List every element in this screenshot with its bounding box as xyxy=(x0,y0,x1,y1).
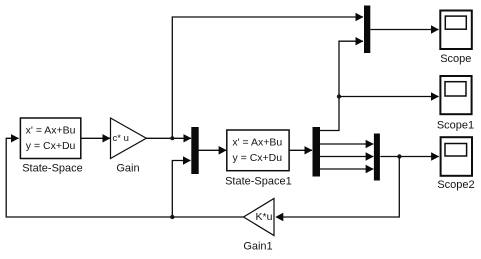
gain block Gain1 xyxy=(244,199,275,236)
svg-text:y = Cx+Du: y = Cx+Du xyxy=(232,152,282,164)
state-space block State-Space xyxy=(20,118,80,159)
node junction on feedback line xyxy=(170,215,174,219)
demux block Demux xyxy=(313,127,321,177)
wire Gain output to Mux input 1 xyxy=(146,137,191,139)
wire Demux output 3 to Mux2 input 2 xyxy=(320,156,373,158)
svg-text:Scope1: Scope1 xyxy=(437,120,474,132)
scope block Scope1 xyxy=(440,76,471,114)
wire junction up to top Mux1 input 1 xyxy=(172,17,363,138)
wire Gain1 output feedback to State-Space input xyxy=(6,138,243,217)
wire feedback junction up to Mux input 2 xyxy=(172,161,190,218)
wire junction to Scope1 input xyxy=(339,96,439,98)
svg-text:y = Cx+Du: y = Cx+Du xyxy=(26,140,76,152)
scope block Scope xyxy=(440,11,472,50)
mux block Mux2 (right) xyxy=(374,134,380,181)
svg-text:Scope2: Scope2 xyxy=(437,179,474,191)
gain block Gain xyxy=(111,118,147,159)
svg-text:x' = Ax+Bu: x' = Ax+Bu xyxy=(26,125,76,137)
svg-text:c* u: c* u xyxy=(113,133,129,144)
svg-text:State-Space1: State-Space1 xyxy=(225,176,292,188)
svg-text:Scope: Scope xyxy=(440,53,471,65)
state-space block State-Space1 xyxy=(227,130,289,171)
scope block Scope2 xyxy=(441,137,472,176)
mux block Mux1 (top) xyxy=(364,6,370,54)
wire Mux1 output to Scope input xyxy=(370,29,438,31)
node junction on Gain output xyxy=(170,136,174,140)
arrowhead into Gain1 input xyxy=(275,213,283,222)
wire Mux2 output to Scope2 input xyxy=(380,156,439,158)
svg-text:Gain1: Gain1 xyxy=(243,240,272,252)
wire Demux output 2 to Mux2 input 1 xyxy=(320,143,373,145)
svg-text:K*u: K*u xyxy=(256,211,273,223)
svg-text:Gain: Gain xyxy=(116,162,139,174)
svg-text:x' = Ax+Bu: x' = Ax+Bu xyxy=(232,137,282,149)
wire Demux output 4 to Mux2 input 3 xyxy=(320,168,373,170)
node junction on Mux2 output xyxy=(397,154,401,158)
wire junction down to Gain1 input xyxy=(283,157,400,218)
svg-text:State-Space: State-Space xyxy=(22,162,83,174)
wire Mux output to State-Space1 input xyxy=(199,149,227,151)
wire State-Space output to Gain input xyxy=(81,137,110,139)
wire Demux output 1 up to Mux1 input 2 xyxy=(320,41,363,130)
mux block Mux (center) xyxy=(191,127,198,174)
wire State-Space1 output to Demux input xyxy=(289,149,312,151)
node junction on Demux out1 vertical xyxy=(337,94,341,98)
